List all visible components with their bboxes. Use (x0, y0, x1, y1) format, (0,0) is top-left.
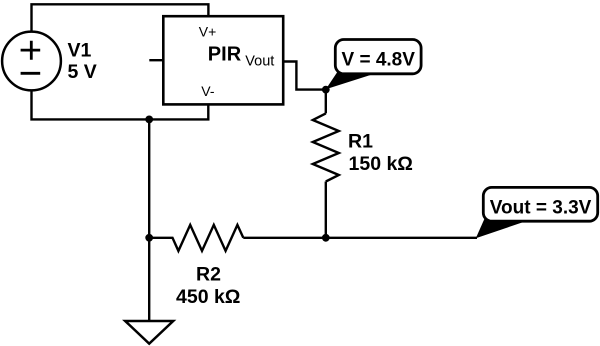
pin left stub of PIR (149, 59, 163, 61)
wire ground stub (148, 238, 150, 321)
node B junction dot (145, 234, 153, 242)
pin Vout of PIR wire (283, 62, 326, 90)
node A junction dot (145, 116, 153, 124)
svg-text:V1: V1 (68, 40, 92, 62)
svg-text:450 kΩ: 450 kΩ (176, 286, 240, 308)
ground (125, 321, 173, 344)
svg-text:PIR: PIR (208, 44, 242, 66)
svg-text:Vout = 3.3V: Vout = 3.3V (490, 197, 592, 218)
wire vertical from node to R2 node (148, 119, 150, 237)
op-amp U1 PIR box (163, 16, 283, 104)
voltage source V1 (2, 32, 61, 91)
svg-text:5 V: 5 V (68, 61, 97, 83)
callout box Vout = 3.3V (483, 187, 597, 221)
node C junction dot (322, 234, 330, 242)
svg-text:150 kΩ: 150 kΩ (349, 153, 413, 175)
node Vout junction dot (322, 86, 330, 94)
svg-text:V+: V+ (199, 23, 217, 39)
resistor R1 (313, 113, 339, 181)
wire R1 top (325, 90, 327, 114)
resistor R2 (149, 225, 243, 251)
svg-text:R1: R1 (348, 130, 373, 152)
callout pointer V = 4.8V (326, 70, 372, 90)
wire R1 bottom (325, 182, 327, 238)
wire bottom rail V1 to PIR V- (32, 90, 209, 119)
callout box V = 4.8V (335, 40, 421, 74)
callout pointer Vout = 3.3V (476, 204, 530, 238)
svg-text:V-: V- (201, 83, 215, 99)
minus sign of V1 (21, 72, 41, 75)
plus sign of V1 (21, 41, 41, 60)
svg-text:Vout: Vout (245, 54, 274, 70)
svg-text:V = 4.8V: V = 4.8V (342, 49, 416, 70)
svg-text:R2: R2 (196, 264, 221, 286)
wire top rail V1 to PIR V+ (32, 4, 209, 31)
wire R2 to Vout callout (243, 237, 477, 239)
